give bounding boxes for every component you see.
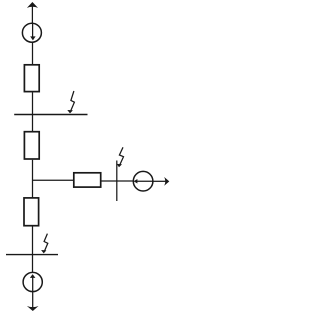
load / outfeed M1 (circle) [133,171,153,191]
node stub: short vertical line at fault point F2 [116,161,118,202]
arrow inside G1 pointing down [30,23,35,40]
wire: R3 to load circle [101,180,134,182]
wire: R1 through busbar A to R2 [32,92,34,131]
wire: G1 to resistor R1 [32,42,34,64]
fault arrow F2 (lightning bolt at branch) [117,147,124,167]
current source G2 [23,272,42,291]
wire: M1 to right arrow end [153,180,166,182]
node N1 / wire: branch to the right [33,179,74,181]
arrow inside G2 pointing up [30,274,36,292]
wire: top vertical lead into source circle [31,6,33,23]
resistor R1 (impedance box) [24,65,39,92]
arrow: right line end pointing right [164,177,169,186]
fault arrow F3 (lightning bolt at busbar B) [41,234,48,254]
resistor R2 (impedance box) [24,132,39,159]
arrow: bottom line end pointing down [27,306,39,311]
busbar A [14,114,87,116]
arrow: top line end pointing up [27,2,38,8]
fault arrow F1 (lightning bolt at busbar A) [67,91,74,113]
wire: R2 down through node N1 to R4 [32,160,34,198]
resistor R3 (horizontal impedance box) [74,173,101,187]
resistor R4 (impedance box) [24,198,39,226]
current source G1 [22,23,41,42]
wire: R4 through busbar B to source G2 [32,226,34,272]
wire: G2 to bottom arrow end [32,292,34,308]
arrow inside M1 pointing left [134,179,153,184]
busbar B [6,254,58,256]
